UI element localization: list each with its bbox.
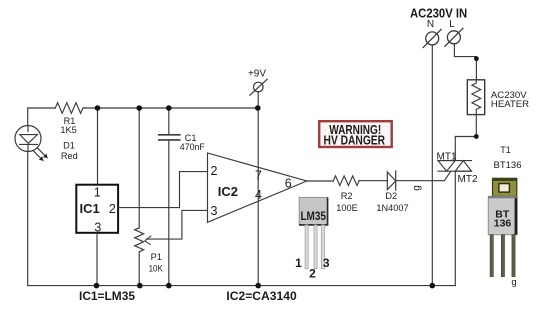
svg-text:7: 7 [255,168,262,182]
svg-text:1N4007: 1N4007 [376,203,408,213]
svg-text:MT2: MT2 [458,174,478,185]
capacitor C1 [159,135,180,140]
svg-text:2: 2 [109,202,116,216]
node gnd-opamp [255,283,261,289]
node heater-MT1 [474,134,479,139]
terminal L [445,28,463,46]
wire IC1 pin3 lead [96,233,98,286]
LM35 package graphic [295,197,330,280]
svg-text:R2: R2 [341,191,353,201]
svg-text:g: g [511,277,516,288]
svg-text:MT1: MT1 [437,152,457,163]
svg-text:6: 6 [285,177,292,191]
svg-text:N: N [427,19,434,30]
svg-text:D1: D1 [63,141,75,151]
svg-text:P1: P1 [151,252,162,262]
svg-text:T1: T1 [500,145,511,155]
svg-text:HEATER: HEATER [491,99,529,110]
svg-text:2: 2 [309,267,316,281]
node rail-C1 [166,105,172,111]
resistor R2 [333,176,359,186]
node rail-P1 [136,105,142,111]
svg-text:HV DANGER: HV DANGER [324,134,386,148]
potentiometer P1 [135,228,151,286]
wire op-amp power vertical [257,108,259,286]
wire IC1 pin1 lead [97,108,99,185]
svg-text:10K: 10K [149,264,164,274]
wire op-amp pin3 to P1 wiper [146,210,207,239]
LED D1 [15,126,47,161]
svg-text:470nF: 470nF [180,142,205,152]
wire IC1 pin2 to riser [118,172,207,208]
node gnd-N [430,283,436,289]
wire top rail +9V [28,107,258,109]
IC1 box [76,185,118,233]
node rail-IC1 [95,105,101,111]
svg-text:IC2: IC2 [218,184,238,199]
svg-text:L: L [449,19,455,30]
triac BT136 package graphic [488,178,517,288]
svg-text:100E: 100E [336,203,357,213]
terminal N [423,29,441,47]
wire MT1 to heater [455,136,476,138]
svg-text:Red: Red [61,151,78,161]
op-amp IC2 triangle [208,153,307,222]
node gnd-IC1 [94,283,100,289]
svg-text:136: 136 [494,217,512,229]
wire heater bottom lead [475,115,477,137]
terminal +9V [250,79,267,95]
svg-text:BT136: BT136 [494,160,522,171]
heater box [467,80,484,115]
svg-text:1: 1 [295,256,302,270]
wire bottom rail [28,285,456,287]
svg-text:3: 3 [94,221,101,235]
svg-text:LM35: LM35 [300,211,326,223]
svg-text:IC1: IC1 [80,201,100,216]
wire L terminal to heater [454,44,476,80]
svg-text:+9V: +9V [248,69,266,80]
svg-text:1: 1 [94,186,101,200]
resistor R1 [55,103,83,114]
node L-corner [474,56,479,61]
wire P1 top lead [138,108,140,228]
svg-text:2: 2 [211,164,218,178]
wire C1 bottom lead [168,141,170,286]
wire N terminal down to rail [431,45,433,286]
wire +9V stub [257,92,259,108]
warning box [319,121,392,147]
svg-text:3: 3 [211,204,218,218]
svg-text:AC230V IN: AC230V IN [410,6,467,21]
svg-text:1K5: 1K5 [60,125,76,135]
svg-text:IC2=CA3140: IC2=CA3140 [226,289,297,303]
diode D2 [387,171,395,190]
triac T1 symbol [438,137,472,286]
node gnd-C1 [166,283,172,289]
wire C1 top lead [168,108,170,134]
node gnd-P1 [137,283,143,289]
wire LED bottom lead [27,152,29,286]
svg-text:g: g [412,185,423,191]
wire op-amp output [307,180,334,182]
svg-text:IC1=LM35: IC1=LM35 [79,289,135,303]
wire LED top lead [27,108,29,126]
node rail-+9V [255,105,261,111]
svg-text:D2: D2 [385,191,397,201]
svg-text:3: 3 [323,256,330,270]
wire R2 to D2 [359,180,387,182]
svg-text:4: 4 [255,188,262,202]
wire D2 to triac gate [396,171,451,181]
